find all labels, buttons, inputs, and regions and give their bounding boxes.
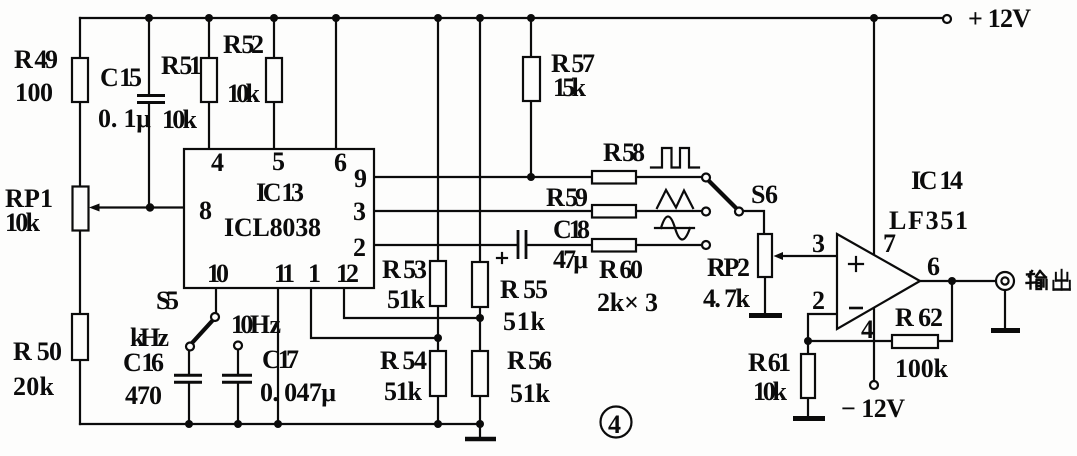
svg-text:C 16: C 16: [123, 348, 164, 377]
svg-text:R 55: R 55: [500, 275, 548, 304]
label R61: [748, 348, 791, 406]
wire 10Hz contact to C17: [237, 350, 239, 374]
label R60: [599, 255, 643, 284]
svg-text:R 58: R 58: [603, 138, 645, 167]
label R53: [382, 255, 427, 314]
figure number 4: [601, 407, 632, 440]
svg-text:R 61: R 61: [748, 348, 791, 377]
potentiometer RP1: [73, 187, 89, 231]
pin 4: [211, 148, 224, 177]
wire pin 2 row to C18, R60 and S6: [373, 244, 702, 246]
svg-text:11: 11: [274, 259, 295, 288]
wire pin 12 to R55/R56 junction: [344, 287, 480, 318]
node R51 top: [205, 14, 213, 22]
svg-text:4: 4: [861, 315, 874, 344]
pin 5: [272, 147, 285, 176]
resistor R57: [523, 57, 540, 101]
switch S6 arm: [708, 180, 736, 208]
switch S6 square contact: [702, 174, 710, 182]
switch S6 triangle contact: [702, 208, 710, 216]
label LF351: [889, 206, 968, 235]
label S5: [156, 286, 179, 315]
capacitor C15: [137, 96, 165, 103]
svg-text:51k: 51k: [503, 307, 546, 336]
label shuchu (output): [1027, 270, 1070, 290]
wire pin 3 row to R59 and S6: [373, 210, 702, 212]
wire RP2 wiper to op-amp pin 3 (arrow): [774, 252, 838, 260]
wire R62 right to output node: [938, 281, 952, 341]
svg-text:R 62: R 62: [895, 303, 943, 332]
svg-text:2: 2: [353, 233, 366, 262]
wire R61 to ground: [807, 341, 809, 416]
wire RP2 bottom to ground: [764, 277, 766, 313]
svg-text:C 17: C 17: [262, 345, 299, 374]
svg-text:10H z: 10H z: [231, 310, 281, 339]
svg-text:4. 7k: 4. 7k: [703, 284, 751, 313]
pin 2: [353, 233, 366, 262]
label C18: [553, 215, 590, 274]
wire pin 10 to S5 common: [215, 287, 217, 313]
svg-text:10k: 10k: [227, 79, 261, 108]
svg-text:R 51: R 51: [161, 51, 202, 80]
sine wave symbol: [655, 217, 694, 240]
wire R61/R62 node row: [808, 340, 892, 342]
svg-text:51k: 51k: [510, 379, 551, 408]
node pin6 top: [332, 14, 340, 22]
svg-text:3: 3: [812, 229, 825, 258]
+12V terminal circle: [943, 15, 951, 23]
ground below R56: [465, 424, 496, 439]
wire op-amp pin 4 to -12V terminal: [873, 307, 875, 381]
node pin12/R55-R56 junction: [476, 314, 484, 322]
capacitor C17: [222, 375, 252, 382]
switch S6 sine contact: [702, 241, 710, 249]
node R54 bottom: [434, 420, 442, 428]
svg-text:2: 2: [812, 286, 825, 315]
svg-text:R 49: R 49: [14, 45, 58, 74]
pin 12: [336, 259, 359, 288]
svg-text:4: 4: [608, 410, 621, 439]
node R61/R62/pin2 junction: [804, 337, 812, 345]
label R62: [895, 303, 949, 383]
resistor R55: [472, 262, 488, 307]
label IC13: [256, 178, 304, 207]
svg-text:C 15: C 15: [100, 63, 142, 92]
svg-text:4: 4: [211, 148, 224, 177]
node opamp supply top: [870, 14, 878, 22]
square wave symbol: [651, 148, 699, 168]
label 10Hz: [231, 310, 281, 339]
pin 9: [354, 164, 367, 193]
label +12V: [968, 4, 1031, 33]
pin 6 label: [927, 252, 940, 281]
wire R57 column: [530, 18, 532, 177]
wire pin 1 to R53/R54 junction: [311, 287, 438, 338]
op-amp IC13 ICL8038 body: [184, 149, 374, 288]
pin 3 label: [812, 229, 825, 258]
svg-text:R 54: R 54: [380, 346, 427, 375]
wire S6 pole to RP2 top: [743, 211, 764, 234]
svg-text:IC 13: IC 13: [256, 178, 304, 207]
wire pin 9 row to R58 and S6: [373, 176, 702, 178]
wire C16 to ground rail: [188, 384, 190, 424]
node C16 bottom: [185, 420, 193, 428]
svg-text:51k: 51k: [387, 285, 426, 314]
pin 2 label: [812, 286, 825, 315]
label R51: [161, 51, 202, 134]
label R59: [546, 183, 588, 212]
svg-text:C 18: C 18: [553, 215, 590, 244]
label ICL8038: [224, 213, 321, 242]
label R52: [223, 30, 264, 108]
label R54: [380, 346, 427, 406]
svg-text:0. 1μ: 0. 1μ: [98, 104, 151, 133]
capacitor C16: [174, 375, 202, 382]
node R57/pin9 junction: [527, 173, 535, 181]
wire left column (R49/RP1/R50 branch): [79, 18, 81, 424]
label R57: [551, 49, 595, 102]
resistor R53: [430, 261, 446, 306]
pin 6: [334, 148, 347, 177]
label C17: [260, 345, 336, 407]
label 2k x 3: [597, 288, 658, 317]
svg-text:2k× 3: 2k× 3: [597, 288, 658, 317]
node pin1/R53-R54 junction: [434, 334, 442, 342]
svg-text:47μ: 47μ: [553, 245, 588, 274]
op-amp plus input mark: [849, 257, 863, 271]
resistor R61: [801, 354, 815, 398]
svg-text:IC 14: IC 14: [911, 166, 963, 195]
label S6: [751, 180, 778, 209]
svg-text:R 56: R 56: [507, 346, 552, 375]
svg-text:ICL8038: ICL8038: [224, 213, 321, 242]
svg-text:R 50: R 50: [13, 337, 62, 366]
resistor R51: [201, 58, 217, 102]
label C15: [98, 63, 151, 133]
wire R52 column to pin 5: [273, 18, 275, 149]
wire op-amp +12V supply column (pin 7): [873, 18, 875, 255]
svg-text:1: 1: [308, 259, 321, 288]
wire C15 column: [148, 18, 150, 208]
node R52 top: [270, 14, 278, 22]
svg-text:6: 6: [334, 148, 347, 177]
wire op-amp pin 2 to R61/R62 node: [808, 314, 837, 341]
label R56: [507, 346, 552, 408]
svg-text:R 52: R 52: [223, 30, 264, 59]
label R50: [13, 337, 62, 401]
node pin8/C15 junction: [146, 203, 154, 211]
svg-text:− 12V: − 12V: [841, 394, 905, 423]
triangle wave symbol: [657, 190, 693, 208]
-12V terminal circle: [870, 381, 878, 389]
capacitor C18: [497, 230, 526, 263]
pin 1: [308, 259, 321, 288]
resistor R54: [430, 351, 446, 396]
potentiometer RP2: [758, 234, 772, 277]
ground below RP2: [749, 313, 782, 318]
pin 3: [353, 197, 366, 226]
wire R53/R54 column: [437, 18, 439, 424]
svg-text:10: 10: [207, 259, 229, 288]
switch S5 kHz contact: [186, 343, 194, 351]
resistor R52: [266, 58, 282, 102]
switch S5 arm: [192, 320, 213, 343]
output jack: [996, 272, 1014, 290]
label -12V: [841, 394, 905, 423]
switch S5 10Hz contact: [234, 342, 242, 350]
label R58: [603, 138, 645, 167]
resistor R58: [592, 171, 636, 184]
node pin11 bottom: [274, 420, 282, 428]
resistor R59: [592, 205, 636, 218]
pin 7 label: [883, 229, 896, 258]
svg-text:10k: 10k: [5, 208, 41, 237]
wire +12V top rail: [80, 17, 947, 19]
svg-text:20k: 20k: [13, 372, 55, 401]
pin 4 label: [861, 315, 874, 344]
ground below output jack: [991, 328, 1020, 333]
svg-text:0. 047μ: 0. 047μ: [260, 378, 336, 407]
svg-text:5: 5: [272, 147, 285, 176]
pin 10: [207, 259, 229, 288]
svg-text:S6: S6: [751, 180, 778, 209]
wire pin 8 to RP1 wiper (arrow): [89, 204, 184, 212]
node R53 top: [434, 14, 442, 22]
wire kHz contact to C16: [188, 350, 190, 374]
pin 11: [274, 259, 295, 288]
svg-text:10k: 10k: [162, 105, 198, 134]
svg-text:R 60: R 60: [599, 255, 643, 284]
node R55 top: [476, 14, 484, 22]
svg-text:12: 12: [336, 259, 359, 288]
label RP2: [703, 253, 751, 313]
switch S6 pole contact: [735, 208, 743, 216]
label R55: [500, 275, 548, 336]
ground below R61: [793, 416, 825, 421]
wire output jack to ground: [1004, 290, 1006, 328]
wire C17 to ground rail: [237, 384, 239, 424]
wire R55/R56 column: [479, 18, 481, 424]
pin 8: [199, 196, 212, 225]
svg-text:S5: S5: [156, 286, 179, 315]
wire pin 11 to ground rail: [277, 287, 279, 424]
resistor R49: [72, 58, 88, 102]
switch S5 common contact: [211, 313, 219, 321]
svg-text:9: 9: [354, 164, 367, 193]
resistor R60: [592, 239, 636, 252]
label RP1: [5, 184, 53, 237]
resistor R50: [72, 314, 88, 360]
wire R51 column to pin 4: [208, 18, 210, 149]
svg-text:LF351: LF351: [889, 206, 968, 235]
op-amp minus input mark: [849, 307, 863, 310]
label kHz: [130, 323, 169, 352]
svg-text:470: 470: [125, 381, 162, 410]
svg-text:7: 7: [883, 229, 896, 258]
svg-text:6: 6: [927, 252, 940, 281]
label IC14: [911, 166, 963, 195]
node C17 bottom: [234, 420, 242, 428]
svg-text:8: 8: [199, 196, 212, 225]
node R56 bottom: [476, 420, 484, 428]
node C15 top: [145, 14, 153, 22]
svg-text:RP2: RP2: [707, 253, 750, 282]
svg-text:51k: 51k: [384, 377, 423, 406]
svg-text:10k: 10k: [753, 377, 788, 406]
node output junction: [948, 277, 956, 285]
svg-text:3: 3: [353, 197, 366, 226]
label C16: [123, 348, 164, 410]
wire pin 6 column: [335, 18, 337, 149]
svg-text:100: 100: [15, 78, 53, 107]
svg-text:+ 12V: + 12V: [968, 4, 1031, 33]
label R49: [14, 45, 58, 107]
op-amp IC14 triangle: [837, 234, 920, 329]
node R57 top: [527, 14, 535, 22]
wire pin 6 output row: [920, 280, 996, 282]
resistor R62: [892, 335, 938, 348]
resistor R56: [472, 351, 488, 396]
svg-text:R 59: R 59: [546, 183, 588, 212]
wire bottom ground rail: [80, 423, 481, 425]
svg-text:15k: 15k: [553, 73, 587, 102]
svg-text:100k: 100k: [895, 354, 949, 383]
svg-text:R 53: R 53: [382, 255, 427, 284]
